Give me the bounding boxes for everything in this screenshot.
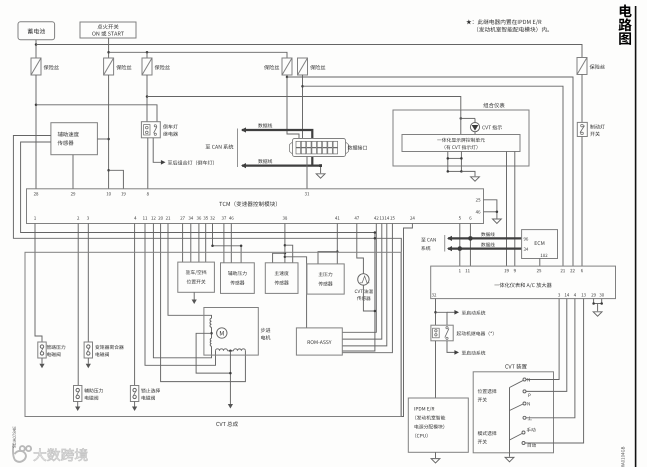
wire TCM pin36 to PN switch [198,224,200,263]
fuse F3 保险丝 [142,58,152,75]
wire oil temp to bus junction [363,285,375,311]
wire pin41 branch left [318,252,337,264]
motor common ground [229,351,231,404]
wire relay coil to TCM pin8 [147,138,149,189]
wire ignition feed [108,38,110,58]
wire TCM pin1 to line solenoid S1 [35,224,42,343]
wire sensor left loop B [21,142,375,351]
stepping motor 步进电机 [204,308,258,356]
wire F4 bottom branch y77 to A/C pin22 [286,75,288,77]
left diagram code [13,426,16,447]
wire TCM pin21 to motor coil1 [168,224,212,319]
meter ground wiring [447,152,449,172]
wire meter to A/C pin9 [514,152,516,267]
wire TCM pin32 jog to sub pressure sensor [213,224,242,263]
watermark logo [13,444,31,462]
wire A/C pin13 to 自动 [525,299,584,443]
wire TCM pin6 CAN-H to A/C pin11 [469,224,471,267]
wire F4 down to DLC [287,77,299,139]
right diagram code [621,447,624,472]
label 数据线 lower [258,159,262,163]
wire TCM pin24 outer route [381,224,413,417]
wire TCM pin14 to ROM-ASSY [342,224,387,346]
wire F3 bottom to relay coil [146,75,148,122]
CAN thick lower line [242,165,321,167]
battery box 蓄电池 [18,22,55,40]
ignition switch box 点火开关 ON/START [80,22,136,38]
wire F5 bottom branch y86 to A/C pin21 [302,75,304,140]
fuse F2 保险丝 [104,58,114,75]
data link connector 数据接口 [293,139,346,157]
wire TCM pin37 to sub pressure sensor [223,224,225,263]
wire relay to IPDM [435,341,437,398]
wire relay contact to reverse lamp arrow [153,138,162,163]
IPDM ground [435,452,437,458]
position select switch upper [523,378,526,381]
wire battery feed [35,40,37,58]
sub pressure sensor 辅助压力传感器 [221,263,255,294]
brake lamp switch 制动灯开关 [577,122,587,136]
wire A/C pin4 to 上 [526,299,575,418]
aux speed sensor box 辅助速度传感器 [51,123,98,155]
solenoid S4 锁止选择电磁阀 [130,386,138,402]
wire pin38 branch to ROM-ASSY top [285,257,307,328]
wire A/C pin32 chain [435,299,437,326]
CVT oil temp sensor 油温传感器 [358,274,369,285]
note IPDM star [466,19,471,24]
motor mid-tap loop [196,333,230,373]
CVT indicator lamp [460,117,463,120]
motor coil4 [234,349,246,351]
label 至 CAN 系统 right [421,238,425,242]
label 数据线 upper [258,123,262,127]
wire TCM pin20 to motor coil4 [161,224,246,382]
solenoid S2 变矩器离合器电磁阀 [84,342,92,358]
wire TCM pin35 to PN switch [205,224,207,263]
A/C amplifier box 一体化仪表和A/C放大器 [431,266,616,299]
IPDM E/R box [408,398,468,452]
wire meter feed y96.5 [147,97,461,111]
wire jog to TCM pin19 [109,170,124,189]
position select switch lower [523,402,526,405]
wire ECM to A/C pin25 [539,259,541,267]
mode select switch [522,431,525,434]
wire TCM pin46 to sub pressure sensor [230,224,232,263]
wire sensor right tap [97,138,108,140]
wire F2 bottom to TCM pin10 [108,75,110,189]
wire F1 bottom to TCM pin28 [35,75,37,189]
CVT assembly box CVT 总成 [25,252,401,416]
right sidebar rule [635,6,637,467]
wire battery-fused bus y104.8 to relay [36,105,157,122]
ROM-ASSY box [296,328,342,355]
TCM box [27,189,484,224]
wire TCM pin47 to oil temp sensor [357,224,364,274]
CAN label left 至 CAN 系统 [206,145,211,149]
wire relay to lower arrow [447,341,455,353]
wire fuse3 top stub [146,52,148,58]
display control unit box 一体化显示屏控制单元 [402,135,520,152]
solenoid S3 辅助压力电磁阀 [74,386,82,402]
TCM top pin numbers [34,192,36,195]
wire TCM pin42 to ROM-ASSY [342,224,376,333]
wire TCM pin5 CAN-L to A/C pin1 [459,224,461,267]
wire TCM pin41 to primary pressure sensor [336,224,338,264]
fuse F6 保险丝 [577,58,587,75]
wire TCM pin12 to motor coil2 [153,224,211,358]
wire A/C pin3 to N [526,299,559,380]
fuse F1 保险丝 [31,58,41,75]
wire pin38 branch left [273,253,285,262]
A/C amp top pin numbers [459,269,461,272]
wire meter to A/C pin19 [506,152,508,267]
switch labels [478,389,482,393]
wire TCM pin11 to motor coil3 [145,224,216,366]
wire sensor bottom to TCM pin29 [72,155,74,189]
wire TCM pin13 to ROM-ASSY [342,224,382,340]
wire TCM pin4 to solenoid S4 [134,224,136,386]
wire pin38 branch right [285,245,293,263]
CAN bus right thick lines [448,237,522,239]
primary pressure sensor 主压力传感器 [307,264,344,294]
wire A/C pin14 to P [526,299,567,392]
wire DLC to TCM pin31 [306,157,308,189]
park/neutral position switch 驻车/空挡位置开关 [178,262,215,292]
arrow to starting system upper [447,311,455,313]
A/C pins 29 30 ground [593,299,595,304]
wire sensor left loop A [13,136,401,417]
label 数据线 right upper [481,232,485,236]
wire ignition bus y52.3 [109,52,287,58]
CAN thick upper line [242,130,312,166]
reverse lamp relay 倒车灯继电器 [141,122,160,138]
TCM right pins 25 46 ground [476,198,478,201]
fuse F5 保险丝 [298,58,308,75]
primary speed sensor 主速度传感器 [265,263,298,294]
title 电路图 (vertical) [620,5,632,18]
motor coil1 [210,318,212,327]
wire brake switch to A/C pin6 [581,137,583,267]
CVT device box CVT 装置 [473,372,553,453]
fuse F4 保险丝 [282,58,292,75]
label 数据线 right lower [481,243,485,247]
starter relay 起动机继电器 [431,325,453,341]
wire TCM pin38 to primary speed sensor [284,224,286,263]
wire TCM pin34 to PN switch [190,224,192,263]
solenoid S1 管路压力电磁阀 [38,342,46,358]
TCM bottom pin numbers [34,216,36,219]
ECM box [522,230,558,259]
wire TCM pin3 to solenoid S2 [87,224,89,343]
motor coil3 [216,349,228,351]
DLC ground [320,166,322,174]
wire TCM pin27 to PN switch [182,224,184,263]
wire battery bus y44.5 [36,45,582,58]
motor coil2 [210,338,211,346]
CVT device ground [509,453,511,457]
wire F6 bottom to brake switch [581,75,583,123]
combination meter box 组合仪表 [393,110,529,166]
wire TCM pin2 to solenoid S3 [77,224,79,386]
A/C amp bottom pin numbers [432,293,434,296]
wire TCM pin15 to ROM-ASSY [342,224,392,353]
